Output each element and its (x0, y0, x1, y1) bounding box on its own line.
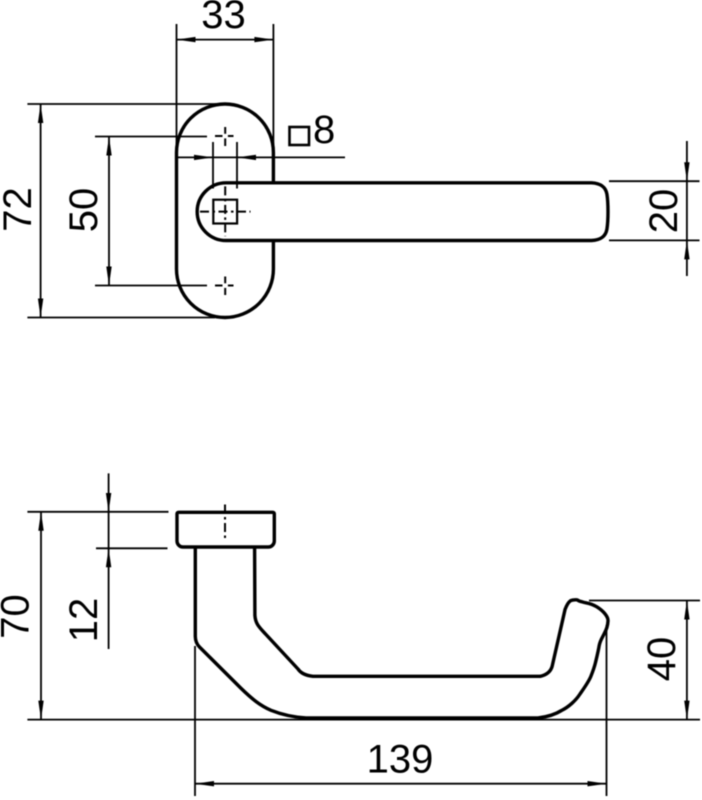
arrow 33 right (254, 37, 273, 42)
arrow 33 left (177, 37, 196, 42)
dimension 12 (96, 473, 168, 649)
arrow square-8 right (outside, pointing left) (237, 155, 256, 160)
dimension 70 (27, 512, 168, 720)
dimension 50 (95, 137, 207, 286)
arrow 70 bottom (38, 701, 43, 720)
extension line 33 right (272, 24, 274, 269)
arrow 20 top (outside, pointing down) (684, 162, 689, 181)
spindle centerline horizontal (200, 211, 251, 213)
arrow 12 bottom (outside, pointing up) (106, 548, 111, 567)
svg-text:72: 72 (0, 187, 40, 232)
svg-text:50: 50 (62, 188, 106, 233)
arrow 139 left (195, 781, 214, 786)
screw hole cross bottom (215, 277, 234, 296)
arrow 20 bottom (outside, pointing up) (684, 240, 689, 259)
extension line 33 left (176, 24, 178, 269)
svg-text:8: 8 (313, 108, 335, 152)
arrow 72 bottom (38, 299, 43, 318)
rosette (oval escutcheon, front view) (177, 104, 274, 318)
dimension 72 (27, 104, 222, 318)
spindle square 8mm (213, 200, 237, 224)
dimension 40 (589, 601, 700, 720)
svg-text:70: 70 (0, 594, 38, 639)
spindle centerline vertical (224, 186, 226, 236)
screw hole cross top (215, 127, 234, 146)
arrow 50 bottom (106, 267, 111, 286)
arrow 70 top (38, 512, 43, 531)
svg-text:139: 139 (367, 738, 434, 782)
arrow 40 top (684, 601, 689, 620)
arrow 50 top (106, 137, 111, 156)
arrow 139 right (588, 781, 607, 786)
dimension 33 (177, 39, 274, 41)
lever handle bar (front view) (197, 183, 608, 241)
lever profile (side view) (195, 546, 608, 718)
arrow 12 top (outside, pointing down) (106, 493, 111, 512)
cap centerline (224, 505, 226, 542)
dimension 20 (609, 141, 700, 276)
arrow 72 top (38, 104, 43, 123)
extension lines square-8 (212, 142, 214, 189)
label square-8 : square symbol (290, 127, 310, 145)
arrow 40 bottom (684, 701, 689, 720)
rosette cap (side view) (177, 512, 274, 547)
svg-text:40: 40 (640, 637, 684, 682)
dimension square-8 leader line (177, 156, 346, 158)
arrow square-8 left (outside, pointing right) (194, 155, 213, 160)
svg-text:33: 33 (201, 0, 246, 37)
baseline / door surface (27, 719, 700, 721)
svg-text:20: 20 (642, 189, 686, 234)
svg-text:12: 12 (62, 598, 106, 643)
dimension 139 (195, 625, 607, 796)
